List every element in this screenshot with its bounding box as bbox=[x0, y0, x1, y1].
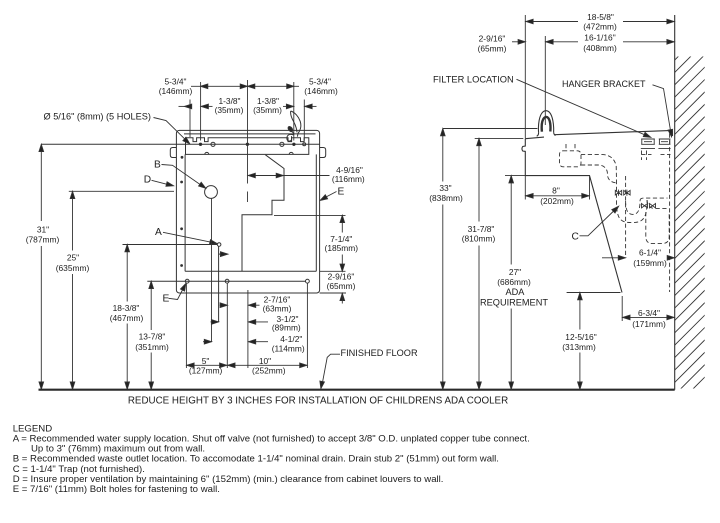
svg-text:E: E bbox=[163, 294, 170, 305]
svg-text:C: C bbox=[572, 231, 579, 242]
svg-text:18-5/8": 18-5/8" bbox=[587, 12, 614, 22]
svg-text:A: A bbox=[155, 227, 162, 238]
svg-text:(787mm): (787mm) bbox=[26, 235, 60, 245]
svg-text:31": 31" bbox=[37, 225, 49, 235]
svg-text:27": 27" bbox=[509, 267, 521, 277]
svg-text:REDUCE HEIGHT BY 3 INCHES FOR: REDUCE HEIGHT BY 3 INCHES FOR INSTALLATI… bbox=[128, 395, 508, 406]
svg-text:6-3/4": 6-3/4" bbox=[638, 308, 660, 318]
svg-text:(810mm): (810mm) bbox=[462, 234, 496, 244]
svg-text:FILTER LOCATION: FILTER LOCATION bbox=[433, 74, 514, 84]
svg-text:2-9/16": 2-9/16" bbox=[479, 34, 506, 44]
svg-text:33": 33" bbox=[439, 183, 451, 193]
svg-text:31-7/8": 31-7/8" bbox=[468, 224, 495, 234]
svg-text:(89mm): (89mm) bbox=[272, 323, 301, 333]
svg-text:E: E bbox=[338, 187, 345, 198]
svg-text:(313mm): (313mm) bbox=[562, 342, 596, 352]
svg-text:18-3/8": 18-3/8" bbox=[113, 303, 140, 313]
svg-text:25": 25" bbox=[67, 253, 79, 263]
svg-text:(252mm): (252mm) bbox=[252, 366, 286, 376]
svg-text:(146mm): (146mm) bbox=[304, 86, 338, 96]
svg-text:(35mm): (35mm) bbox=[215, 105, 244, 115]
svg-text:(472mm): (472mm) bbox=[583, 22, 617, 32]
svg-text:(127mm): (127mm) bbox=[189, 366, 223, 376]
svg-text:(408mm): (408mm) bbox=[583, 43, 617, 53]
svg-text:(65mm): (65mm) bbox=[478, 43, 507, 53]
svg-text:(114mm): (114mm) bbox=[272, 344, 305, 354]
svg-text:12-5/16": 12-5/16" bbox=[565, 332, 596, 342]
svg-text:E = 7/16" (11mm) Bolt holes fo: E = 7/16" (11mm) Bolt holes for fastenin… bbox=[13, 484, 220, 495]
svg-text:5": 5" bbox=[202, 356, 210, 366]
svg-text:HANGER BRACKET: HANGER BRACKET bbox=[562, 79, 646, 89]
svg-text:6-1/4": 6-1/4" bbox=[639, 247, 661, 257]
svg-text:Ø 5/16" (8mm) (5 HOLES): Ø 5/16" (8mm) (5 HOLES) bbox=[44, 112, 151, 122]
svg-text:(467mm): (467mm) bbox=[110, 313, 144, 323]
svg-text:(185mm): (185mm) bbox=[325, 243, 359, 253]
svg-text:16-1/16": 16-1/16" bbox=[584, 33, 615, 43]
svg-text:(635mm): (635mm) bbox=[56, 263, 90, 273]
svg-text:(159mm): (159mm) bbox=[633, 258, 667, 268]
svg-text:(35mm): (35mm) bbox=[253, 105, 282, 115]
svg-text:(146mm): (146mm) bbox=[159, 86, 193, 96]
svg-text:FINISHED FLOOR: FINISHED FLOOR bbox=[341, 348, 418, 358]
svg-text:(351mm): (351mm) bbox=[135, 342, 169, 352]
svg-text:10": 10" bbox=[259, 356, 271, 366]
svg-text:4-1/2": 4-1/2" bbox=[280, 334, 302, 344]
svg-text:(65mm): (65mm) bbox=[327, 281, 356, 291]
svg-text:(63mm): (63mm) bbox=[263, 303, 292, 313]
svg-text:(686mm): (686mm) bbox=[497, 277, 531, 287]
svg-text:REQUIREMENT: REQUIREMENT bbox=[480, 297, 548, 307]
svg-text:13-7/8": 13-7/8" bbox=[139, 332, 166, 342]
svg-text:(116mm): (116mm) bbox=[332, 174, 365, 184]
svg-text:8": 8" bbox=[552, 185, 560, 195]
svg-text:(202mm): (202mm) bbox=[540, 196, 574, 206]
svg-text:(171mm): (171mm) bbox=[632, 319, 666, 329]
svg-text:D: D bbox=[144, 175, 151, 186]
svg-text:(838mm): (838mm) bbox=[429, 193, 463, 203]
svg-text:B: B bbox=[154, 160, 161, 171]
svg-text:ADA: ADA bbox=[506, 287, 526, 297]
